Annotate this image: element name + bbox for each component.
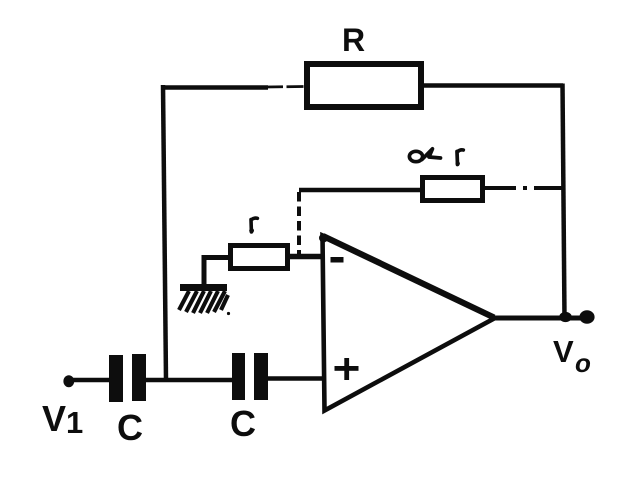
label r (alpha-r)	[456, 150, 464, 166]
label alpha	[409, 149, 440, 162]
resistor R	[307, 64, 421, 107]
wire alpha-r vertical drop to inverting node	[297, 192, 301, 255]
wire right vertical branch	[563, 84, 565, 319]
op-amp hypotenuse emphasis	[323, 236, 494, 318]
wire alpha-r left horizontal	[299, 188, 424, 193]
ground hatch dot	[227, 312, 230, 315]
wire left vertical feedback branch	[163, 85, 166, 380]
op-amp U1	[323, 236, 496, 411]
wire alpha-r right dash-dot to right vertical	[485, 186, 563, 190]
svg-text:o: o	[575, 348, 591, 378]
wire op-amp output	[493, 316, 589, 321]
wire r resistor left to ground	[204, 258, 230, 288]
terminal dot V1 input	[63, 375, 74, 387]
wire r resistor right to inverting input	[288, 254, 322, 260]
capacitor C2 plates	[232, 353, 245, 400]
junction dot at output node	[559, 312, 572, 322]
svg-text:C: C	[117, 407, 143, 448]
terminal dot Vo	[579, 310, 594, 324]
label r (grounded resistor)	[249, 218, 257, 233]
wire between capacitors	[145, 378, 233, 383]
wire non-inverting input	[267, 376, 322, 381]
resistor r	[231, 246, 288, 269]
svg-text:V: V	[553, 334, 574, 369]
svg-text:V1: V1	[42, 398, 83, 440]
ground hatching	[179, 291, 228, 313]
resistor alpha-r	[423, 178, 483, 201]
wire top-left horizontal to resistor R	[161, 85, 268, 90]
svg-text:R: R	[342, 22, 365, 58]
wire resistor R to right vertical	[421, 83, 563, 88]
minus sign of op-amp	[331, 257, 344, 263]
ground bar	[180, 284, 227, 291]
capacitor C1 plates	[109, 355, 123, 402]
plus sign of op-amp	[335, 366, 359, 371]
wire input from V1 terminal	[67, 378, 111, 383]
junction dot top-left corner of op-amp	[319, 234, 328, 243]
svg-text:C: C	[230, 403, 256, 444]
